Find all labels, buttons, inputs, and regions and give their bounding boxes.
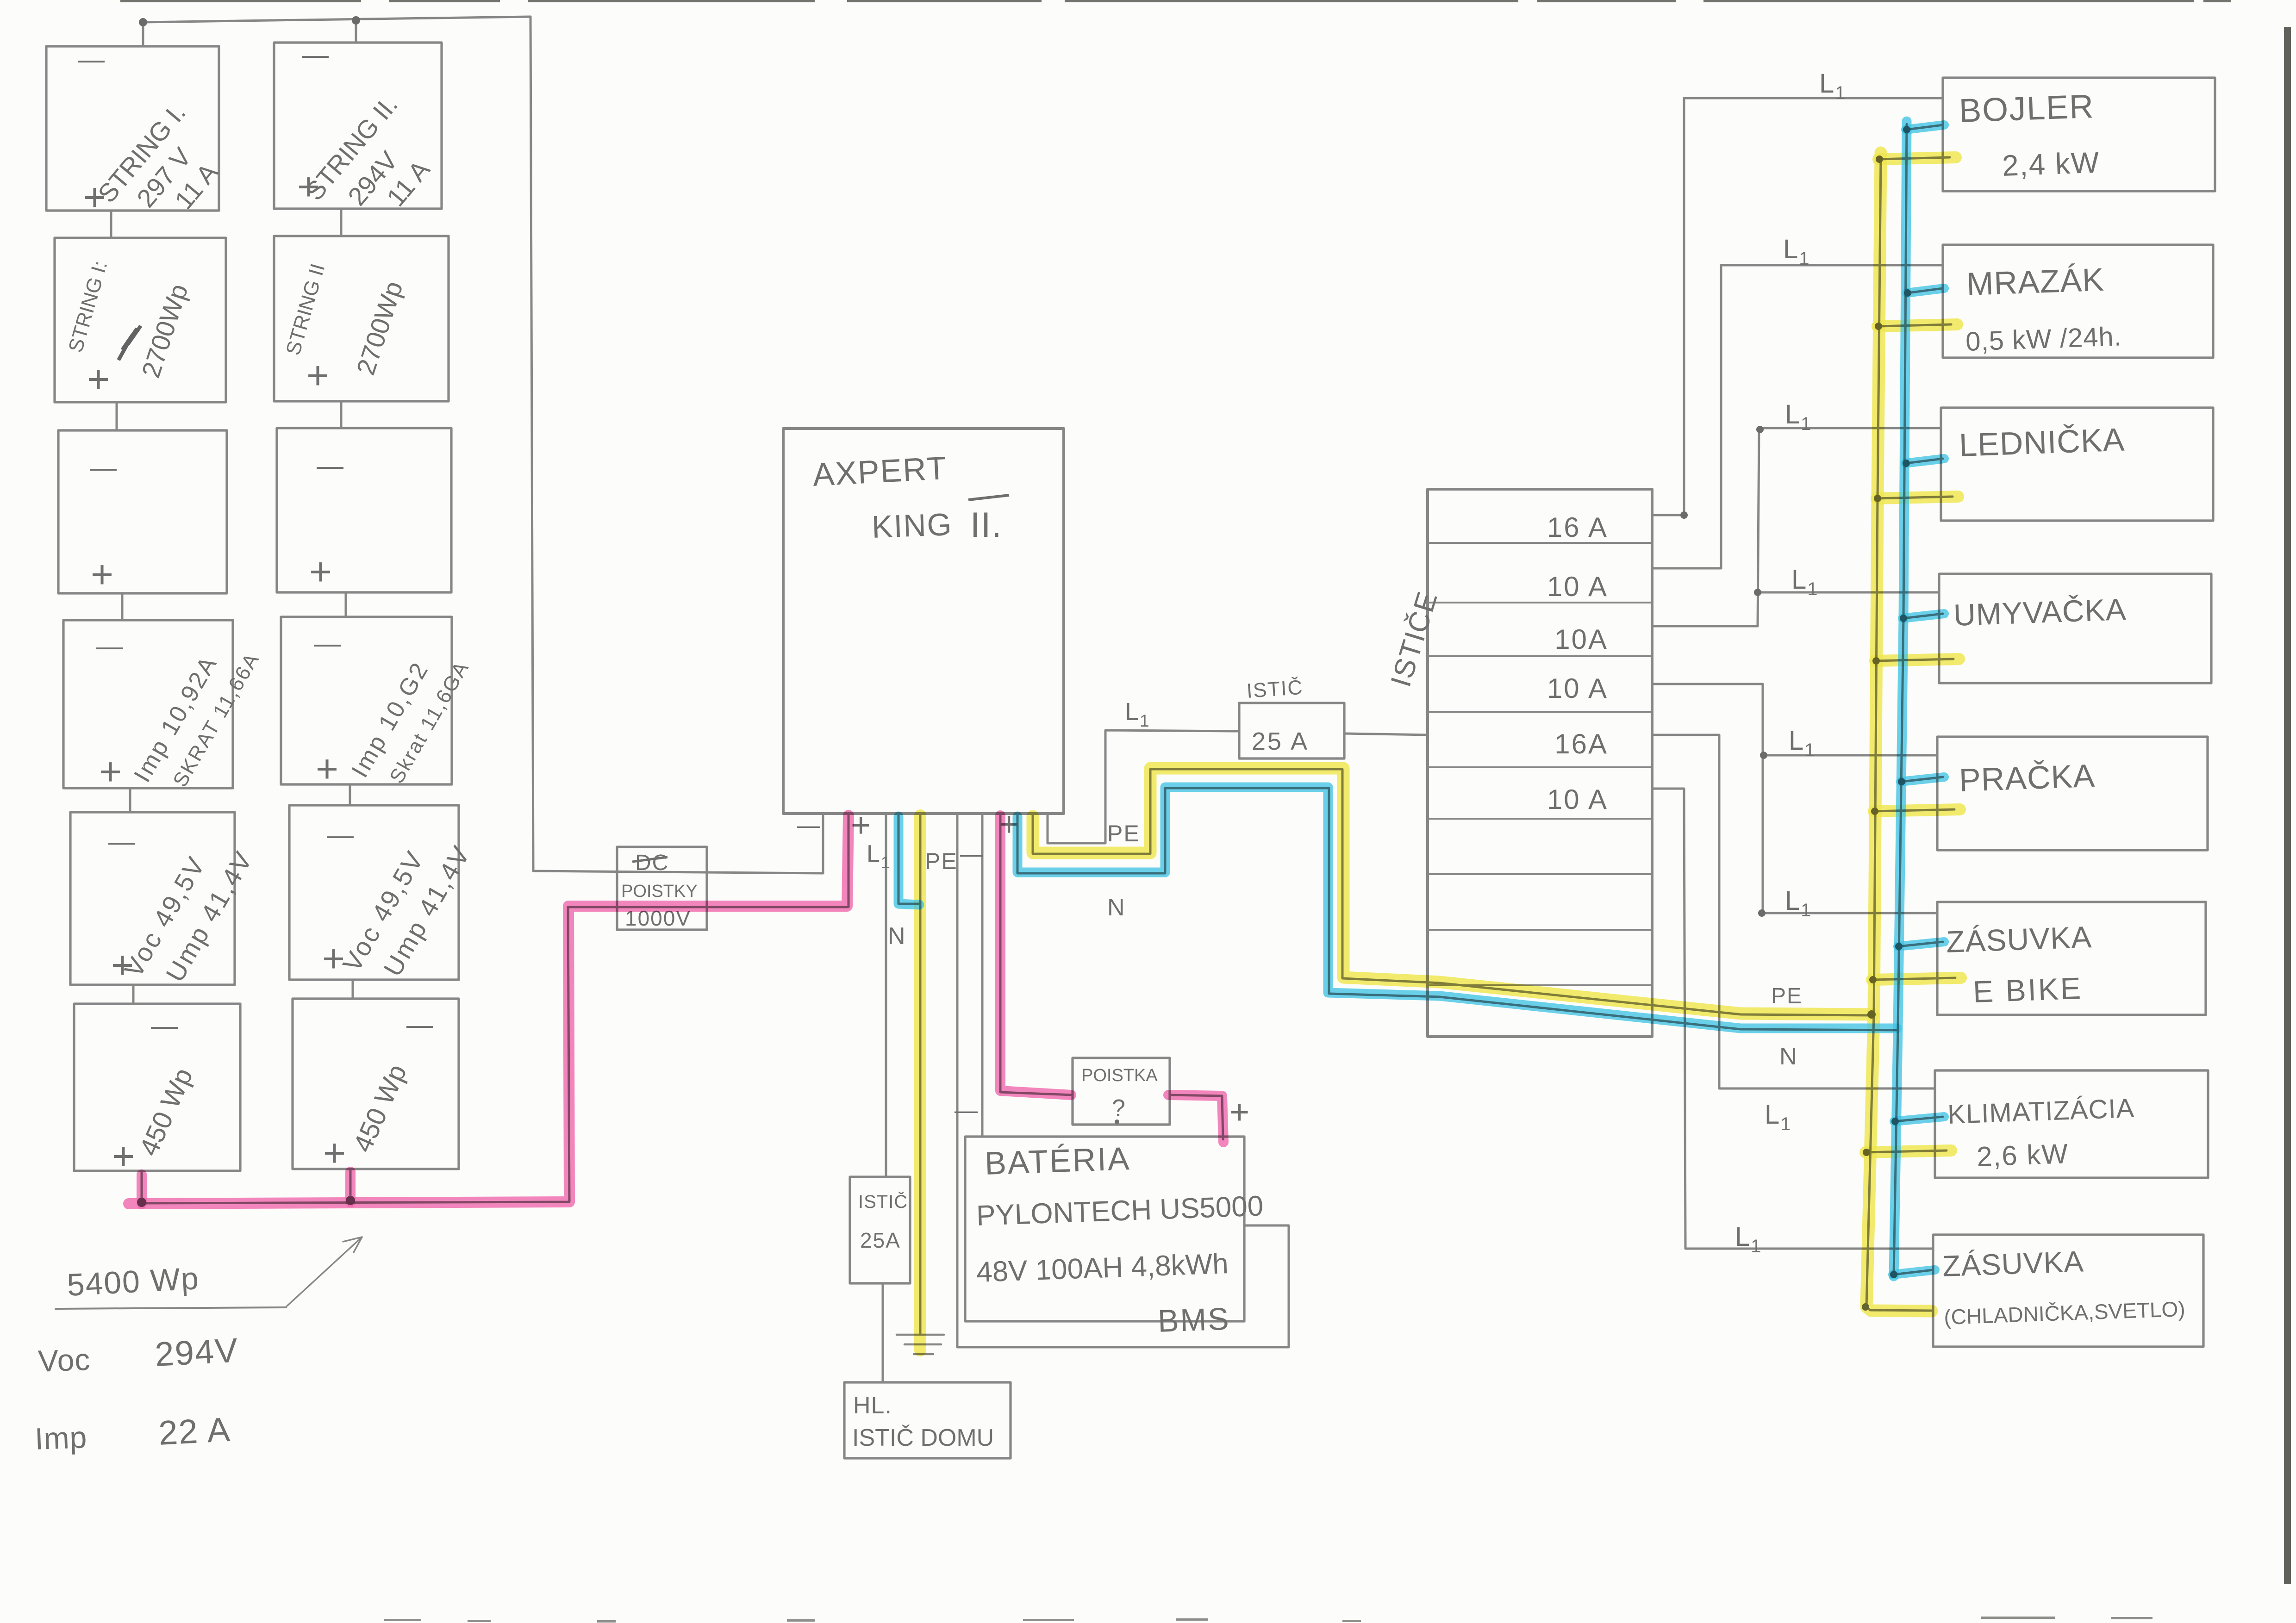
svg-text:LEDNIČKA: LEDNIČKA [1959,422,2126,463]
svg-text:N: N [888,923,906,950]
svg-text:10 A: 10 A [1547,784,1608,815]
svg-text:—: — [955,1097,979,1123]
svg-text:BATÉRIA: BATÉRIA [984,1140,1131,1181]
svg-text:+: + [297,165,321,208]
svg-text:—: — [797,812,821,838]
svg-text:0,5 kW /24h.: 0,5 kW /24h. [1965,321,2122,357]
svg-text:25A: 25A [860,1228,901,1252]
svg-text:5400 Wp: 5400 Wp [66,1261,200,1303]
svg-text:10A: 10A [1554,624,1608,655]
svg-text:—: — [108,827,136,857]
svg-text:—: — [151,1011,179,1041]
svg-text:?: ? [1112,1095,1126,1122]
svg-text:+: + [851,806,872,844]
svg-text:KING: KING [871,507,953,545]
svg-text:DC: DC [635,851,669,875]
svg-text:10 A: 10 A [1547,571,1608,602]
svg-text:ISTIČ: ISTIČ [858,1191,908,1212]
svg-text:UMYVAČKA: UMYVAČKA [1953,592,2127,632]
svg-text:+: + [99,750,123,793]
svg-text:ISTIČ DOMU: ISTIČ DOMU [852,1424,994,1451]
svg-text:+: + [323,1131,347,1175]
svg-text:II.: II. [970,505,1002,545]
svg-text:10 A: 10 A [1547,673,1608,704]
svg-text:ZÁSUVKA: ZÁSUVKA [1946,920,2092,959]
svg-text:PE: PE [1771,984,1803,1008]
svg-text:—: — [78,44,106,75]
svg-text:+: + [112,1134,136,1178]
svg-text:PE: PE [1107,821,1140,846]
svg-text:+: + [309,550,333,593]
svg-text:+: + [306,354,330,397]
svg-text:294V: 294V [154,1331,239,1374]
svg-text:—: — [317,451,344,481]
svg-text:ISTIČ: ISTIČ [1246,676,1304,703]
svg-text:—: — [327,820,355,850]
svg-text:BOJLER: BOJLER [1959,88,2095,130]
svg-text:PRAČKA: PRAČKA [1959,758,2096,798]
svg-text:Voc: Voc [37,1342,91,1378]
svg-text:+: + [91,553,114,596]
svg-text:+: + [316,747,339,790]
svg-text:—: — [302,40,330,70]
svg-text:N: N [1779,1043,1798,1070]
svg-text:PE: PE [925,848,958,874]
svg-text:—: — [96,631,124,661]
svg-text:—: — [314,628,342,659]
svg-text:—: — [90,453,118,483]
svg-text:—: — [406,1010,434,1040]
svg-text:+: + [111,943,135,987]
svg-text:+: + [322,937,346,980]
svg-text:POISTKY: POISTKY [621,882,698,901]
svg-text:2,4 kW: 2,4 kW [2002,146,2101,182]
svg-text:25 A: 25 A [1252,728,1309,755]
svg-text:16 A: 16 A [1547,512,1608,543]
svg-text:MRAZÁK: MRAZÁK [1966,261,2105,302]
svg-text:ZÁSUVKA: ZÁSUVKA [1942,1244,2084,1283]
svg-text:22 A: 22 A [157,1410,231,1452]
svg-text:HL.: HL. [853,1392,892,1419]
svg-text:—: — [960,841,984,867]
svg-text:N: N [1107,894,1126,921]
svg-text:E BIKE: E BIKE [1972,971,2083,1009]
svg-text:AXPERT: AXPERT [812,450,948,493]
svg-text:+: + [83,175,107,219]
svg-text:2,6 kW: 2,6 kW [1976,1138,2069,1172]
svg-text:Imp: Imp [34,1420,88,1456]
svg-text:POISTKA: POISTKA [1081,1066,1158,1085]
svg-text:BMS: BMS [1157,1301,1231,1339]
svg-text:+: + [87,357,111,401]
svg-text:16A: 16A [1554,728,1608,759]
svg-text:+: + [1229,1093,1250,1131]
